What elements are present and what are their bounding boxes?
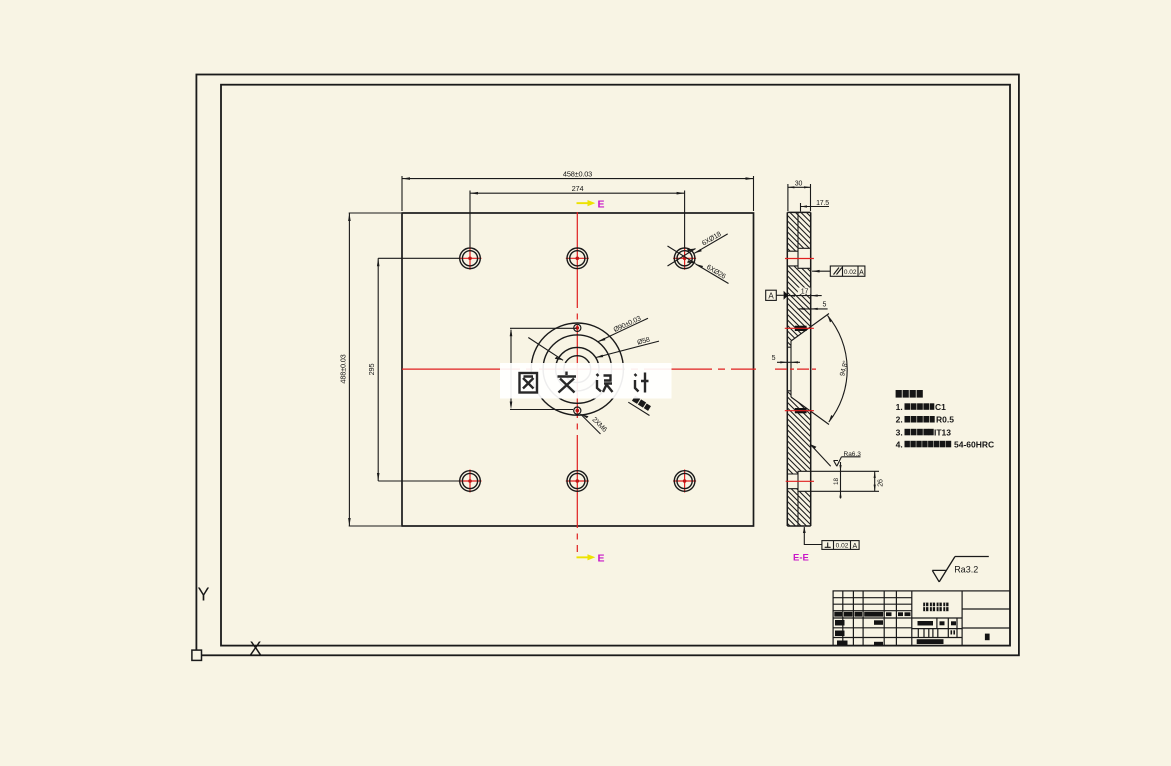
center bore circles — [531, 323, 623, 415]
svg-text:Ra3.2: Ra3.2 — [954, 565, 978, 575]
section outline — [787, 212, 810, 526]
svg-text:4.: 4. — [896, 439, 903, 449]
horizontal centerline — [402, 368, 756, 370]
svg-text:30: 30 — [795, 181, 803, 188]
svg-text:5: 5 — [822, 302, 826, 309]
datum A — [766, 290, 784, 300]
origin marker square — [192, 650, 202, 660]
svg-text:488±0.03: 488±0.03 — [339, 354, 348, 383]
watermark strokes: tu wen she ji — [520, 372, 649, 393]
dim 488 left — [349, 213, 401, 526]
white cutouts: bottom hole — [787, 474, 797, 489]
dim 274 — [470, 191, 685, 249]
part name blobs (an zhuang di ban) — [923, 603, 948, 612]
leader 2XM6 — [581, 414, 601, 434]
position tolerance frame bottom — [804, 527, 859, 549]
section red centerlines — [775, 259, 818, 482]
dim 17 — [788, 295, 822, 297]
svg-text:0.02: 0.02 — [836, 543, 849, 550]
arrowheads front dims — [348, 177, 753, 526]
inner drawing frame — [221, 85, 1010, 646]
hatched bar — [787, 212, 810, 526]
svg-text:5: 5 — [772, 355, 776, 362]
svg-text:3.: 3. — [896, 427, 903, 437]
svg-text:E: E — [598, 198, 605, 210]
tu — [520, 373, 538, 393]
left grid horizontals — [833, 598, 962, 638]
svg-text:IT13: IT13 — [934, 427, 951, 437]
M6 span dim — [510, 328, 577, 409]
svg-text:A: A — [852, 543, 857, 550]
svg-text:295: 295 — [367, 364, 376, 376]
hole center red dots — [468, 257, 686, 483]
inner hole edges — [787, 212, 829, 526]
svg-text:Y: Y — [198, 585, 210, 605]
parallelism frame — [812, 266, 865, 276]
right cells — [962, 609, 1010, 628]
ji — [635, 373, 649, 393]
E arrow bottom — [577, 553, 605, 565]
dim 295 — [378, 258, 459, 481]
title block black text blobs — [834, 612, 989, 646]
dim 5 right — [798, 308, 828, 310]
svg-text:54-60HRC: 54-60HRC — [954, 439, 994, 449]
vertical centerline — [576, 212, 578, 552]
M6 tapped holes black — [795, 326, 807, 331]
plate outline — [402, 213, 754, 526]
leader d58 — [596, 341, 660, 358]
svg-text:A: A — [768, 291, 774, 300]
left grid verticals — [843, 591, 897, 646]
dim 5 left — [777, 361, 800, 363]
red centerlines — [402, 212, 756, 552]
cone edges — [787, 341, 791, 397]
svg-text:A: A — [859, 269, 864, 276]
svg-text:X: X — [250, 639, 262, 659]
hole crosshairs — [459, 247, 482, 270]
svg-text:Ra6.3: Ra6.3 — [844, 451, 862, 458]
outer drawing frame — [196, 75, 1019, 656]
6 counterbored holes — [460, 248, 695, 491]
2XM6 small holes — [574, 324, 581, 414]
garbled 45deg note — [628, 402, 649, 415]
main verticals — [912, 591, 962, 646]
svg-text:17.5: 17.5 — [816, 200, 829, 207]
svg-text:17: 17 — [801, 288, 809, 295]
svg-text:458±0.03: 458±0.03 — [563, 170, 592, 179]
roughness Ra3.2 big — [932, 557, 989, 582]
roughness R6.3 — [810, 444, 861, 466]
svg-text:R0.5: R0.5 — [936, 415, 954, 425]
dimensions front view — [349, 176, 754, 526]
svg-text:1.: 1. — [896, 402, 903, 412]
svg-text:26: 26 — [878, 479, 885, 487]
dim 26 and 18 bottom — [811, 462, 879, 499]
white cutouts: top hole — [787, 251, 797, 266]
angle arc 94.8 — [828, 316, 848, 423]
leaders at top-right hole 6xd18 / 6xd26 — [668, 234, 729, 284]
leader d90 — [528, 318, 648, 360]
she — [597, 374, 613, 392]
dim 458 top — [402, 176, 754, 211]
svg-text:274: 274 — [572, 184, 584, 193]
svg-text:18: 18 — [833, 478, 840, 486]
dim 30 top of section — [788, 184, 811, 211]
wen — [558, 372, 577, 393]
svg-text:C1: C1 — [935, 402, 946, 412]
dim 17.5 — [801, 203, 830, 212]
svg-text:0.02: 0.02 — [844, 269, 857, 276]
white cutout: center cone — [787, 327, 810, 412]
E arrow top — [577, 198, 605, 210]
svg-text:E-E: E-E — [793, 553, 809, 564]
middle cells — [912, 628, 962, 630]
svg-text:2.: 2. — [896, 415, 903, 425]
svg-text:E: E — [598, 553, 605, 565]
